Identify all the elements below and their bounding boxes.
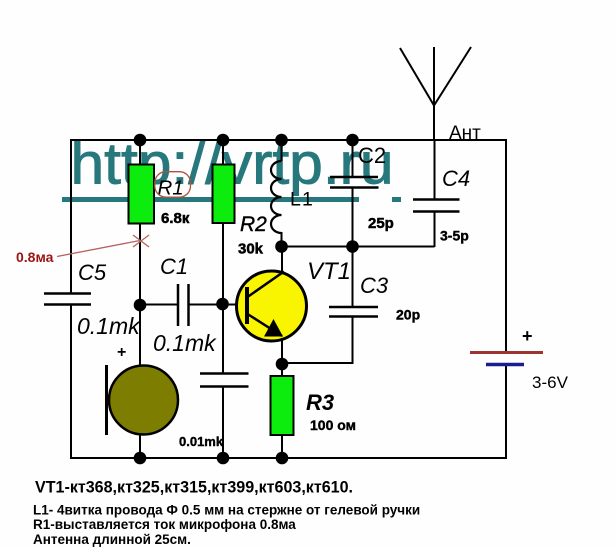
wire R1 bottom xyxy=(139,223,141,306)
battery BT1 positive plate xyxy=(470,351,543,354)
wire right border lower xyxy=(505,365,507,459)
capacitor C5 xyxy=(44,294,91,305)
antenna right arm xyxy=(434,47,471,106)
battery BT1 negative plate xyxy=(486,363,524,367)
resistor R1 xyxy=(129,165,155,224)
capacitor 0.01mk xyxy=(200,374,249,387)
svg-text:C4: C4 xyxy=(442,166,470,191)
svg-text:R3: R3 xyxy=(306,390,334,415)
watermark underline bar xyxy=(62,197,359,202)
wire left border lower xyxy=(70,305,72,459)
junction dot bottom rail R3 xyxy=(276,452,289,465)
junction dot mic node xyxy=(134,299,147,312)
svg-text:3-6V: 3-6V xyxy=(532,373,569,392)
svg-text:0.01mk: 0.01mk xyxy=(179,434,224,449)
microphone BM1 electrode bar xyxy=(105,365,108,435)
annotation red current line xyxy=(57,241,140,257)
transistor VT1 emitter arrow xyxy=(264,319,283,337)
wire top rail xyxy=(70,139,506,141)
junction dot bottom rail mic xyxy=(134,452,147,465)
wire C4 top xyxy=(434,139,436,200)
annotation oval around R1 xyxy=(155,172,191,197)
capacitor C2 xyxy=(330,177,379,188)
junction dot rail C2 xyxy=(346,134,359,147)
svg-text:Антенна длинной 25см.: Антенна длинной 25см. xyxy=(33,532,191,547)
wire mic node down to microphone xyxy=(139,305,141,367)
junction dot tank node L1 xyxy=(275,240,288,253)
wire R2 top xyxy=(222,140,224,166)
svg-text:6.8к: 6.8к xyxy=(161,210,190,227)
svg-text:C2: C2 xyxy=(358,143,386,168)
resistor R2 xyxy=(213,165,235,224)
transistor VT1 base bar xyxy=(245,287,249,324)
wire emitter down xyxy=(281,338,283,377)
svg-text:25p: 25p xyxy=(368,215,394,232)
wire left border upper xyxy=(70,139,72,294)
junction dot base node xyxy=(216,298,229,311)
junction dot rail R2 xyxy=(217,134,230,147)
transistor VT1 emitter stroke xyxy=(248,314,283,336)
svg-text:+: + xyxy=(522,326,533,346)
transistor VT1 body xyxy=(237,271,307,341)
wire collector up to tank node xyxy=(281,247,283,272)
wire L1 bottom xyxy=(281,232,283,248)
svg-text:L1: L1 xyxy=(290,189,314,211)
junction dot rail L1 xyxy=(275,134,288,147)
wire C1 to base node xyxy=(189,304,224,306)
microphone BM1 body xyxy=(109,366,178,435)
wire C3 bottom xyxy=(352,317,354,365)
svg-text:0.1mk: 0.1mk xyxy=(153,330,217,356)
capacitor C1 xyxy=(178,284,189,326)
svg-text:20p: 20p xyxy=(396,307,420,323)
svg-text:C1: C1 xyxy=(160,254,188,279)
annotation red X mark xyxy=(133,235,149,247)
wire mic node to C1 xyxy=(140,304,178,306)
capacitor C3 xyxy=(329,307,378,317)
wire R3 to bottom rail xyxy=(281,435,283,458)
junction dot emitter node xyxy=(276,358,289,371)
wire microphone to bottom rail xyxy=(139,434,141,458)
wire L1 top xyxy=(281,140,283,161)
svg-text:C3: C3 xyxy=(360,273,389,298)
antenna left arm xyxy=(400,48,434,106)
wire C3 to emitter node xyxy=(281,362,354,364)
svg-text:0.8ма: 0.8ма xyxy=(16,249,54,265)
wire R2 bottom to base node xyxy=(222,223,224,305)
junction dot rail R1 xyxy=(134,134,147,147)
svg-text:C5: C5 xyxy=(78,260,107,285)
wire base to transistor xyxy=(222,304,247,306)
wire tank node horizontal xyxy=(282,246,435,248)
wire C2 top xyxy=(352,140,354,178)
wire bottom rail xyxy=(70,457,507,459)
svg-text:VT1-кт368,кт325,кт315,кт399,кт: VT1-кт368,кт325,кт315,кт399,кт603,кт610. xyxy=(35,478,353,497)
watermark underline dot xyxy=(392,197,401,202)
transistor VT1 collector stroke xyxy=(248,272,285,298)
wire C4 bottom xyxy=(434,212,436,248)
inductor L1 coil xyxy=(271,161,282,233)
svg-text:Ант: Ант xyxy=(449,123,481,144)
wire right border upper xyxy=(505,139,507,352)
svg-text:30k: 30k xyxy=(238,241,264,258)
wire 0.01mk cap to bottom rail xyxy=(222,387,224,459)
svg-text:VT1: VT1 xyxy=(307,258,351,285)
svg-text:L1- 4витка провода Ф 0.5 мм на: L1- 4витка провода Ф 0.5 мм на стержне о… xyxy=(33,503,420,518)
antenna mast xyxy=(433,47,435,140)
wire C3 top xyxy=(352,246,354,308)
wire C2 bottom xyxy=(352,188,354,248)
capacitor C4 xyxy=(413,200,460,212)
junction dot tank node C2 xyxy=(346,240,359,253)
svg-text:+: + xyxy=(117,344,126,361)
svg-text:R1-выставляется ток микрофона: R1-выставляется ток микрофона 0.8ма xyxy=(33,517,296,532)
svg-text:R2: R2 xyxy=(240,213,267,236)
svg-text:0.1mk: 0.1mk xyxy=(77,313,141,339)
wire base node to 0.01mk cap xyxy=(222,305,224,374)
resistor R3 xyxy=(271,376,294,435)
svg-text:3-5p: 3-5p xyxy=(440,228,469,244)
junction dot bottom rail 0.01mk xyxy=(217,452,230,465)
wire R1 top xyxy=(139,140,141,166)
svg-text:100 ом: 100 ом xyxy=(310,417,356,433)
